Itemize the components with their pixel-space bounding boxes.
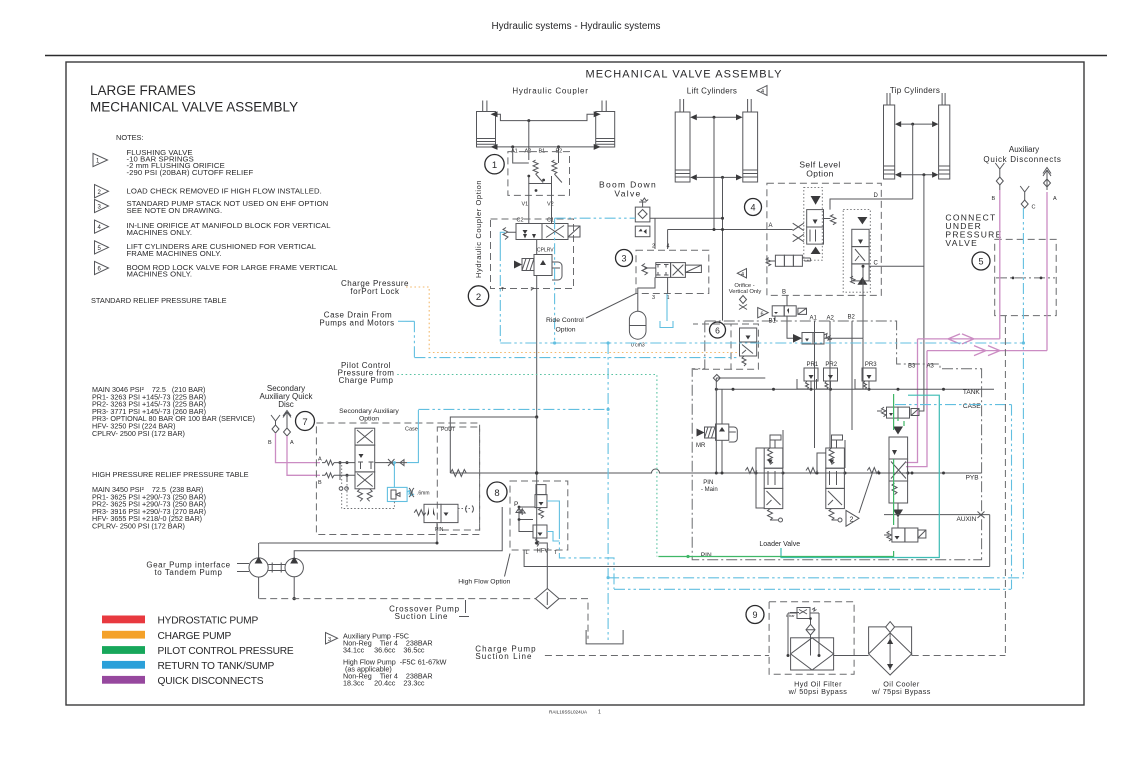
svg-text:7: 7 <box>302 417 307 428</box>
svg-text:A: A <box>1053 196 1057 202</box>
lift bottom wire <box>697 176 736 178</box>
cyan right down leg <box>1011 405 1013 590</box>
high flow box 8 <box>510 481 568 550</box>
svg-text:MACHINES ONLY.: MACHINES ONLY. <box>127 228 193 237</box>
crossover dashed line right <box>559 599 588 639</box>
svg-text:CPLRV- 2500 PSI (172 BAR): CPLRV- 2500 PSI (172 BAR) <box>92 522 185 531</box>
pump coupling <box>268 563 285 573</box>
svg-text:to Tandem Pump: to Tandem Pump <box>154 568 222 577</box>
QD pink drop B <box>999 190 1001 339</box>
svg-text:Lift Cylinders: Lift Cylinders <box>687 87 737 96</box>
accumulator <box>629 311 646 339</box>
hydraulic coupler option box <box>491 219 574 289</box>
box4 B port wire <box>786 295 788 306</box>
svg-text:3: 3 <box>328 637 331 643</box>
aux quick disconnect B <box>995 163 1004 190</box>
svg-text:HFV: HFV <box>537 549 549 555</box>
PR2 relief <box>817 362 838 390</box>
svg-text:B2: B2 <box>848 315 856 321</box>
svg-text:FRAME MACHINES ONLY.: FRAME MACHINES ONLY. <box>127 249 222 258</box>
bypass wires <box>788 613 819 656</box>
orifice vertical flag 4 <box>737 269 746 278</box>
C drop continues to tank <box>862 266 864 338</box>
junction boom-lift <box>721 217 724 220</box>
pink risers to loader B3 A3 <box>906 339 918 463</box>
CPLRV tank return cyan <box>500 232 505 250</box>
boom down valve <box>635 198 650 237</box>
svg-text:D: D <box>874 193 879 199</box>
svg-text:PR2: PR2 <box>825 362 837 368</box>
svg-text:NOTES:: NOTES: <box>116 133 144 142</box>
svg-text:Hydraulic systems - Hydraulic: Hydraulic systems - Hydraulic systems <box>491 21 660 32</box>
svg-text:.6mm: .6mm <box>417 491 430 497</box>
check diamond on feed <box>713 375 765 382</box>
svg-text:B: B <box>268 440 272 446</box>
svg-text:PIN: PIN <box>703 480 713 486</box>
svg-text:1: 1 <box>598 710 601 716</box>
svg-text:4: 4 <box>667 244 670 250</box>
svg-text:V2: V2 <box>547 202 554 208</box>
note flag 2 <box>95 185 109 198</box>
svg-text:A: A <box>318 457 322 463</box>
circle 5 <box>972 252 990 270</box>
A port spring symbol <box>318 457 338 466</box>
circle 3 <box>616 250 633 267</box>
orifice vertical symbol <box>739 296 747 310</box>
svg-text:9: 9 <box>752 610 757 620</box>
cyan long case return <box>500 342 1023 344</box>
circle 2 <box>468 286 488 306</box>
CPLRV pilot valve <box>514 255 562 281</box>
MR main relief <box>697 424 738 442</box>
svg-text:Ride Control: Ride Control <box>546 317 584 324</box>
box4 C wire <box>869 265 924 267</box>
wire A1 down <box>512 147 514 158</box>
svg-text:RETURN TO TANK/SUMP: RETURN TO TANK/SUMP <box>158 661 275 672</box>
ride control option box <box>636 250 709 293</box>
gear pump left <box>237 557 268 578</box>
svg-text:L: L <box>526 550 529 556</box>
hydraulic coupler cylinder left <box>477 101 498 150</box>
svg-text:PR3: PR3 <box>865 362 877 368</box>
svg-text:2: 2 <box>850 517 854 524</box>
boom valve cyan riser <box>554 218 556 343</box>
lift top wire <box>697 116 736 118</box>
svg-text:CHARGE PUMP: CHARGE PUMP <box>158 631 232 642</box>
loader spool 2 <box>826 435 845 522</box>
svg-text:5: 5 <box>978 257 983 267</box>
note flag 3 <box>95 199 109 212</box>
svg-text:B: B <box>318 480 322 486</box>
svg-text:V1: V1 <box>522 202 529 208</box>
cyan case drain from pumps <box>406 321 740 357</box>
box4 mid valve <box>766 255 810 266</box>
circle 8 <box>487 482 507 502</box>
cup internal dash line <box>996 277 1055 279</box>
svg-text:Case: Case <box>405 427 418 433</box>
circle 6 <box>710 322 726 338</box>
wires into spool <box>338 463 355 482</box>
svg-text:POUT: POUT <box>441 427 455 433</box>
svg-text:Option: Option <box>806 169 833 179</box>
svg-text:B: B <box>992 196 996 202</box>
lift drop wires <box>713 117 715 229</box>
flushing valve springs <box>533 160 543 183</box>
legend swatch hydrostatic <box>102 616 145 624</box>
svg-text:- Main: - Main <box>701 487 718 493</box>
wire lift to selflevel A <box>668 229 767 231</box>
case cyan riser <box>407 410 418 463</box>
spool out wire with shutoff and check <box>375 462 407 464</box>
loader spool 1 <box>764 435 783 522</box>
note flag 6 <box>95 261 109 274</box>
flag 2 in loader <box>846 510 859 526</box>
gear pump right <box>285 557 303 577</box>
svg-text:MACHINES ONLY.: MACHINES ONLY. <box>127 270 193 279</box>
svg-text:C2: C2 <box>517 218 524 224</box>
svg-text:Suction Line: Suction Line <box>395 612 449 621</box>
svg-text:1: 1 <box>492 160 497 171</box>
V wires down <box>528 195 530 223</box>
circle 9 <box>746 606 764 624</box>
pink chevrons lower <box>958 346 1000 356</box>
MR wire to tank <box>721 389 723 473</box>
ride control drain wires <box>638 277 668 311</box>
header rule <box>45 55 1107 57</box>
circle 1 <box>485 155 504 174</box>
flag 4 near lift cylinders <box>757 86 767 96</box>
tank junctions <box>715 388 718 391</box>
svg-text:A: A <box>290 440 294 446</box>
main P trunk <box>450 469 981 473</box>
svg-text:LOAD CHECK REMOVED IF HIGH FLO: LOAD CHECK REMOVED IF HIGH FLOW INSTALLE… <box>127 187 322 196</box>
lift cylinder left <box>675 99 697 182</box>
svg-text:T: T <box>501 287 504 293</box>
svg-text:6: 6 <box>761 312 764 318</box>
QD cyan drop C <box>1022 208 1024 578</box>
tip bottom wire <box>901 174 932 176</box>
svg-text:Tip Cylinders: Tip Cylinders <box>890 86 940 95</box>
aux pump note flag 3 <box>326 633 338 645</box>
spool3 outlet arrow <box>893 510 903 518</box>
svg-text:3: 3 <box>621 254 626 264</box>
green pilot dotted from charge pump <box>397 375 657 557</box>
spool2 pilot spring <box>802 468 818 474</box>
tank trunk line <box>716 388 994 390</box>
svg-text:Auxiliary: Auxiliary <box>1009 145 1039 154</box>
self level right valve arrow up <box>857 277 867 285</box>
connect under pressure box <box>995 239 1056 315</box>
pink chevrons upper <box>946 334 986 344</box>
svg-text:MR: MR <box>696 443 706 449</box>
junction tip bottom <box>922 173 925 176</box>
circle 4 <box>745 199 762 216</box>
teal loop around spool3 <box>781 395 939 557</box>
lift cylinder right <box>736 99 758 182</box>
self level option box <box>767 183 881 295</box>
cyan branch to right <box>608 577 1023 579</box>
svg-text:PILOT CONTROL PRESSURE: PILOT CONTROL PRESSURE <box>158 646 294 657</box>
legend swatch pilot <box>102 646 145 654</box>
trunk spring end <box>450 470 466 477</box>
svg-text:Hydraulic Coupler Option: Hydraulic Coupler Option <box>474 180 483 278</box>
svg-text:TANK: TANK <box>963 389 981 396</box>
self level right valve <box>851 229 870 283</box>
note flag 5 <box>95 241 109 254</box>
junction lift bottom <box>721 176 724 179</box>
loader spool 3 <box>889 437 908 503</box>
box4 A port wire <box>767 229 793 231</box>
spool3 to aux valve wire <box>897 503 899 528</box>
svg-text:C: C <box>874 261 879 267</box>
svg-text:Option: Option <box>359 416 379 423</box>
aux quick disconnect A <box>1043 168 1051 191</box>
boom lock pilot valve B1 <box>772 306 806 316</box>
loader spool 3 unload valve <box>877 407 919 418</box>
PIN selector valve <box>414 504 458 522</box>
filter bypass check <box>806 624 815 635</box>
charge suction dashed line <box>545 655 769 657</box>
cooler connect wires <box>834 654 912 656</box>
svg-text:2: 2 <box>652 244 655 250</box>
oil cooler bypass wires <box>869 627 912 654</box>
case drain cyan main <box>418 408 608 410</box>
main line down to crossover filter <box>537 417 548 589</box>
AUXIN line <box>884 514 990 516</box>
svg-text:B: B <box>782 290 786 296</box>
filter bypass relief <box>786 608 817 619</box>
svg-text:C1: C1 <box>547 218 554 224</box>
hfv check <box>519 509 525 515</box>
wire B1 valve to lock valve <box>787 316 793 338</box>
svg-text:HIGH PRESSURE RELIEF PRESSURE: HIGH PRESSURE RELIEF PRESSURE TABLE <box>92 470 249 479</box>
svg-text:3: 3 <box>652 295 655 301</box>
legend swatch quick disconnects <box>102 676 145 684</box>
junction tip top <box>911 123 914 126</box>
svg-text:A: A <box>769 223 773 229</box>
svg-text:Quick Disconnects: Quick Disconnects <box>983 155 1061 164</box>
crossover tick mark <box>465 600 467 613</box>
wire B2 down <box>558 147 560 158</box>
box8 output wire <box>524 550 990 567</box>
svg-text:PIN: PIN <box>701 552 712 559</box>
cyan lower branch right <box>614 588 1012 590</box>
svg-text:HYDROSTATIC PUMP: HYDROSTATIC PUMP <box>158 616 259 627</box>
svg-text:Suction Line: Suction Line <box>475 652 532 661</box>
junction lift top <box>713 116 716 119</box>
PR3 relief <box>855 362 877 390</box>
svg-text:VALVE: VALVE <box>945 238 978 248</box>
secondary QD A symbol <box>283 411 291 437</box>
svg-text:C: C <box>1032 205 1036 211</box>
dotted pilot lines <box>342 465 395 509</box>
svg-text:8: 8 <box>494 488 499 499</box>
flushing valve box 1 <box>508 152 570 196</box>
svg-text:-290 PSI (20BAR) CUTOFF RELIEF: -290 PSI (20BAR) CUTOFF RELIEF <box>127 168 254 177</box>
svg-text:2: 2 <box>476 292 481 303</box>
hfv solenoid valve <box>535 485 547 519</box>
ride control pointer line <box>586 294 636 319</box>
high flow option pointer <box>505 554 511 577</box>
svg-text:forPort Lock: forPort Lock <box>350 287 400 296</box>
self level right dotted enclosure <box>843 210 870 293</box>
svg-text:w/ 50psi Bypass: w/ 50psi Bypass <box>788 687 848 696</box>
junction A2 <box>527 119 530 122</box>
secondary aux option box <box>316 423 479 535</box>
QD pink drop A <box>1046 192 1048 351</box>
svg-text:Secondary Auxiliary: Secondary Auxiliary <box>339 408 399 415</box>
crossover strainer diamond <box>536 589 560 609</box>
svg-text:PYB: PYB <box>966 475 979 482</box>
svg-text:6: 6 <box>715 326 720 336</box>
svg-text:Option: Option <box>556 327 576 334</box>
svg-text:4: 4 <box>750 203 755 213</box>
svg-text:LARGE FRAMES: LARGE FRAMES <box>90 83 196 98</box>
case drain leader cyan <box>398 320 406 322</box>
self level left valve arrow down <box>811 196 821 205</box>
svg-text:Valve: Valve <box>614 189 641 199</box>
trunk junctions <box>535 471 538 474</box>
ride control port wires <box>655 218 668 249</box>
coupler bottom wire <box>498 146 594 148</box>
self level left dotted enclosure <box>804 187 823 260</box>
wire A2 down <box>528 121 530 160</box>
ride control valve <box>642 263 701 278</box>
self level left valve arrow up <box>811 247 821 254</box>
junction B2 <box>557 145 560 148</box>
hyd oil filter <box>791 638 834 670</box>
main line elbow <box>450 417 536 473</box>
svg-text:18.3cc 20.4cc 23.3cc: 18.3cc 20.4cc 23.3cc <box>343 679 425 688</box>
tip cylinder right <box>932 93 950 179</box>
cyan return to reservoir <box>607 343 609 640</box>
coupler solenoid valve C2/C1 <box>503 224 580 240</box>
pink line B to valve <box>276 433 321 463</box>
relief 6mm cyan <box>387 487 414 501</box>
svg-text:RAIL16SSL024UA: RAIL16SSL024UA <box>549 710 588 715</box>
boom rod lock valve <box>793 333 832 345</box>
tip cylinder left <box>884 93 902 179</box>
box 6 dashed <box>693 324 758 369</box>
svg-text:Vertical Only: Vertical Only <box>729 289 762 295</box>
pink line A to valve <box>287 436 320 475</box>
svg-text:PIN: PIN <box>435 527 444 533</box>
legend swatch charge pump <box>102 631 145 639</box>
pump drain wires <box>259 577 295 599</box>
secondary aux spool <box>355 428 375 501</box>
hfv internal wires <box>519 507 535 532</box>
oil cooler <box>869 633 912 675</box>
svg-text:CASE: CASE <box>963 403 981 410</box>
hydraulic coupler cylinder right <box>594 101 615 150</box>
hfv cyan wires <box>547 501 559 528</box>
oil filter box 9 <box>769 602 854 675</box>
boom valve output wire <box>650 217 723 219</box>
secondary QD B symbol <box>271 415 280 433</box>
svg-text:34.1cc 36.6cc 36.5cc: 34.1cc 36.6cc 36.5cc <box>343 646 425 655</box>
svg-text:4: 4 <box>761 89 764 95</box>
svg-text:MECHANICAL VALVE ASSEMBLY: MECHANICAL VALVE ASSEMBLY <box>585 69 782 81</box>
oil cooler check <box>886 622 895 633</box>
loader feeder wires from top <box>775 316 852 448</box>
box 6 pilot valve <box>740 328 757 366</box>
circle 7 <box>296 412 315 431</box>
spool3 pilot spring <box>863 468 879 474</box>
spool1 A/B wires <box>756 430 783 508</box>
legend swatch return <box>102 661 145 669</box>
note flag 4 <box>95 220 109 233</box>
svg-text:STANDARD RELIEF PRESSURE TABLE: STANDARD RELIEF PRESSURE TABLE <box>91 296 227 305</box>
svg-text:QUICK DISCONNECTS: QUICK DISCONNECTS <box>158 676 264 687</box>
crossover suction dashed line <box>259 598 536 600</box>
junction A1 <box>511 145 514 148</box>
svg-text:SEE NOTE ON DRAWING.: SEE NOTE ON DRAWING. <box>127 206 223 215</box>
junction dots secondary aux <box>339 461 342 464</box>
svg-text:Charge Pump: Charge Pump <box>339 376 394 385</box>
tip drop wires <box>912 124 914 199</box>
green pilot vertical <box>658 394 893 557</box>
svg-text:CPLRV: CPLRV <box>537 248 554 254</box>
flushing valve internals <box>513 158 559 163</box>
svg-text:Hydraulic Coupler: Hydraulic Coupler <box>512 87 588 96</box>
coupler top wire <box>498 114 594 120</box>
right vertical dashed line <box>912 316 1006 656</box>
self level left valve <box>807 210 836 245</box>
green case drain from spool area <box>898 418 904 426</box>
orange charge pressure line <box>406 287 740 353</box>
pink link B <box>918 338 1000 340</box>
self level right valve arrow down <box>857 217 867 224</box>
svg-text:AUXIN: AUXIN <box>957 516 977 523</box>
note flag 1 <box>93 153 108 166</box>
flag 6 triangle <box>758 308 769 318</box>
svg-text:CPLRV- 2500 PSI (172 BAR): CPLRV- 2500 PSI (172 BAR) <box>92 429 185 438</box>
pink link A <box>927 350 1047 352</box>
spool1 pilot spring <box>741 468 757 474</box>
PR1 relief <box>797 362 819 390</box>
vent circles <box>339 487 343 491</box>
loader valve dash-dot box <box>692 321 981 560</box>
svg-text:4: 4 <box>741 272 744 278</box>
dotted bracket <box>458 506 472 512</box>
pump suction wires <box>259 507 503 558</box>
pout inner dashed box <box>437 427 479 530</box>
svg-text:w/ 75psi Bypass: w/ 75psi Bypass <box>871 687 931 696</box>
aux pilot valve bottom <box>884 528 926 542</box>
wire lock valve to C drop <box>824 337 863 339</box>
svg-text:Pumps and Motors: Pumps and Motors <box>319 319 394 328</box>
spool2 wires <box>817 440 845 473</box>
svg-text:PR1: PR1 <box>807 362 819 368</box>
tip top wire <box>901 123 932 125</box>
reservoir bracket <box>586 630 623 644</box>
pin valve drop wire <box>259 523 437 543</box>
ride control cyan drain <box>660 294 673 328</box>
svg-text:Loader Valve: Loader Valve <box>759 541 800 548</box>
drawing border frame <box>66 62 1084 705</box>
box4 D wire <box>830 199 913 210</box>
cyan to relief <box>393 463 395 488</box>
B port spring symbol <box>318 473 338 486</box>
svg-text:High Flow Option: High Flow Option <box>458 579 510 586</box>
boom valve cyan feed <box>555 217 636 219</box>
case cyan right segment <box>895 404 1012 406</box>
svg-text:6 bar: 6 bar <box>786 614 795 618</box>
main pressure wire through coupler valves <box>536 240 538 255</box>
spool3 inlet arrow <box>893 427 903 435</box>
aux quick disconnect C <box>1020 186 1029 208</box>
orifice X symbol in box4 <box>793 223 804 242</box>
